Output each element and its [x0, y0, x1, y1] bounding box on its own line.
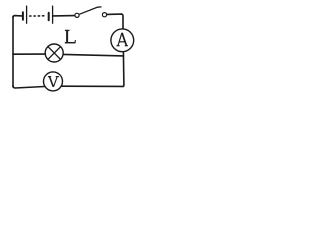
battery B1 cell2 long plate — [52, 6, 54, 23]
wire top-left corner — [13, 16, 22, 18]
wire top-right corner down to ammeter — [121, 14, 123, 29]
switch S1 right terminal circle — [102, 13, 106, 17]
battery dots (more cells) — [30, 15, 44, 17]
lamp L circle — [45, 44, 63, 62]
battery B1 cell1 long plate — [26, 6, 28, 23]
battery B1 cell2 short plate — [48, 13, 50, 20]
battery B1 cell1 short plate — [22, 12, 24, 20]
wire switch to top-right corner — [107, 13, 121, 15]
ammeter A1 circle — [111, 29, 134, 52]
wire left vertical — [12, 17, 14, 87]
switch S1 lever — [79, 7, 101, 14]
wire bottom left from corner to voltmeter — [13, 86, 45, 88]
voltmeter V1 circle — [44, 72, 63, 91]
wire voltmeter to bottom-right corner — [62, 85, 123, 87]
lamp L cross stroke 2 — [48, 47, 61, 60]
wire lamp branch right to right vertical — [63, 54, 123, 56]
node junction lamp wire / right vertical — [122, 55, 124, 57]
label V inside voltmeter — [48, 77, 59, 87]
lamp L cross stroke 1 — [48, 47, 61, 60]
wire ammeter to bottom-right corner — [122, 52, 124, 87]
wire lamp branch left — [13, 53, 45, 55]
label L for lamp — [65, 30, 76, 43]
wire battery to switch — [54, 15, 75, 17]
switch S1 left terminal circle — [75, 13, 79, 17]
label A inside ammeter — [117, 33, 128, 46]
